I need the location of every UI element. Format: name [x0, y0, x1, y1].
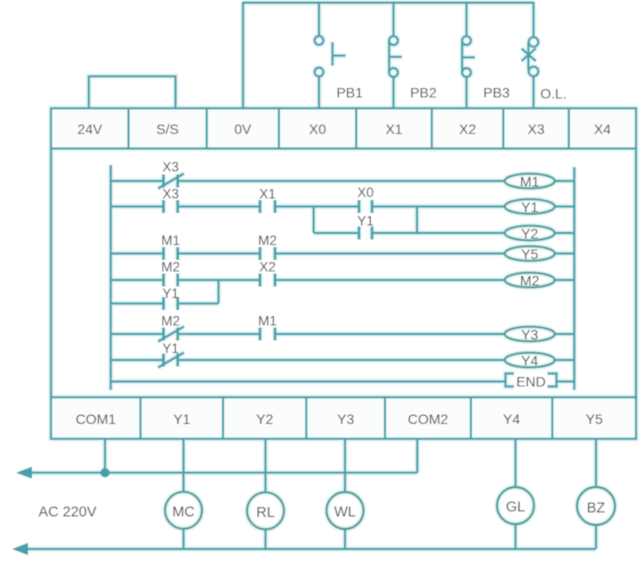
- svg-text:Y1: Y1: [357, 214, 374, 229]
- svg-text:Y2: Y2: [521, 226, 538, 242]
- svg-text:Y2: Y2: [256, 411, 273, 427]
- svg-text:0V: 0V: [234, 121, 252, 137]
- svg-text:X3: X3: [162, 187, 179, 202]
- svg-text:X3: X3: [528, 121, 545, 137]
- svg-text:Y4: Y4: [521, 353, 538, 369]
- svg-text:X1: X1: [385, 121, 402, 137]
- svg-text:M1: M1: [258, 314, 277, 329]
- svg-text:Y1: Y1: [173, 411, 190, 427]
- svg-text:Y5: Y5: [521, 246, 538, 262]
- svg-text:COM2: COM2: [408, 411, 449, 427]
- svg-text:Y3: Y3: [337, 411, 354, 427]
- svg-text:X2: X2: [459, 121, 476, 137]
- svg-text:M1: M1: [161, 233, 180, 248]
- svg-text:RL: RL: [256, 505, 275, 521]
- svg-text:24V: 24V: [77, 121, 103, 137]
- svg-text:Y1: Y1: [162, 341, 179, 356]
- svg-text:MC: MC: [172, 504, 195, 520]
- svg-text:END: END: [516, 373, 546, 389]
- svg-text:Y4: Y4: [503, 411, 520, 427]
- svg-text:X0: X0: [309, 121, 326, 137]
- svg-text:X2: X2: [259, 260, 276, 275]
- svg-text:M1: M1: [520, 174, 540, 190]
- svg-text:Y1: Y1: [521, 199, 538, 215]
- svg-text:PB1: PB1: [336, 85, 363, 101]
- svg-text:Y5: Y5: [586, 411, 603, 427]
- svg-text:WL: WL: [334, 505, 356, 521]
- svg-text:M2: M2: [520, 273, 540, 289]
- svg-text:PB3: PB3: [483, 85, 510, 101]
- svg-text:S/S: S/S: [156, 121, 179, 137]
- svg-text:M2: M2: [161, 314, 180, 329]
- svg-text:X1: X1: [259, 187, 276, 202]
- svg-text:PB2: PB2: [410, 85, 437, 101]
- svg-text:COM1: COM1: [76, 411, 117, 427]
- svg-text:M2: M2: [258, 233, 277, 248]
- svg-text:M2: M2: [161, 260, 180, 275]
- svg-text:Y1: Y1: [162, 286, 179, 301]
- svg-text:X3: X3: [162, 160, 179, 175]
- svg-text:GL: GL: [506, 500, 525, 516]
- svg-text:X4: X4: [594, 121, 611, 137]
- svg-text:O.L.: O.L.: [540, 86, 566, 102]
- svg-text:X0: X0: [357, 185, 374, 200]
- svg-text:BZ: BZ: [587, 500, 606, 516]
- svg-text:Y3: Y3: [521, 327, 538, 343]
- svg-text:AC 220V: AC 220V: [38, 505, 96, 521]
